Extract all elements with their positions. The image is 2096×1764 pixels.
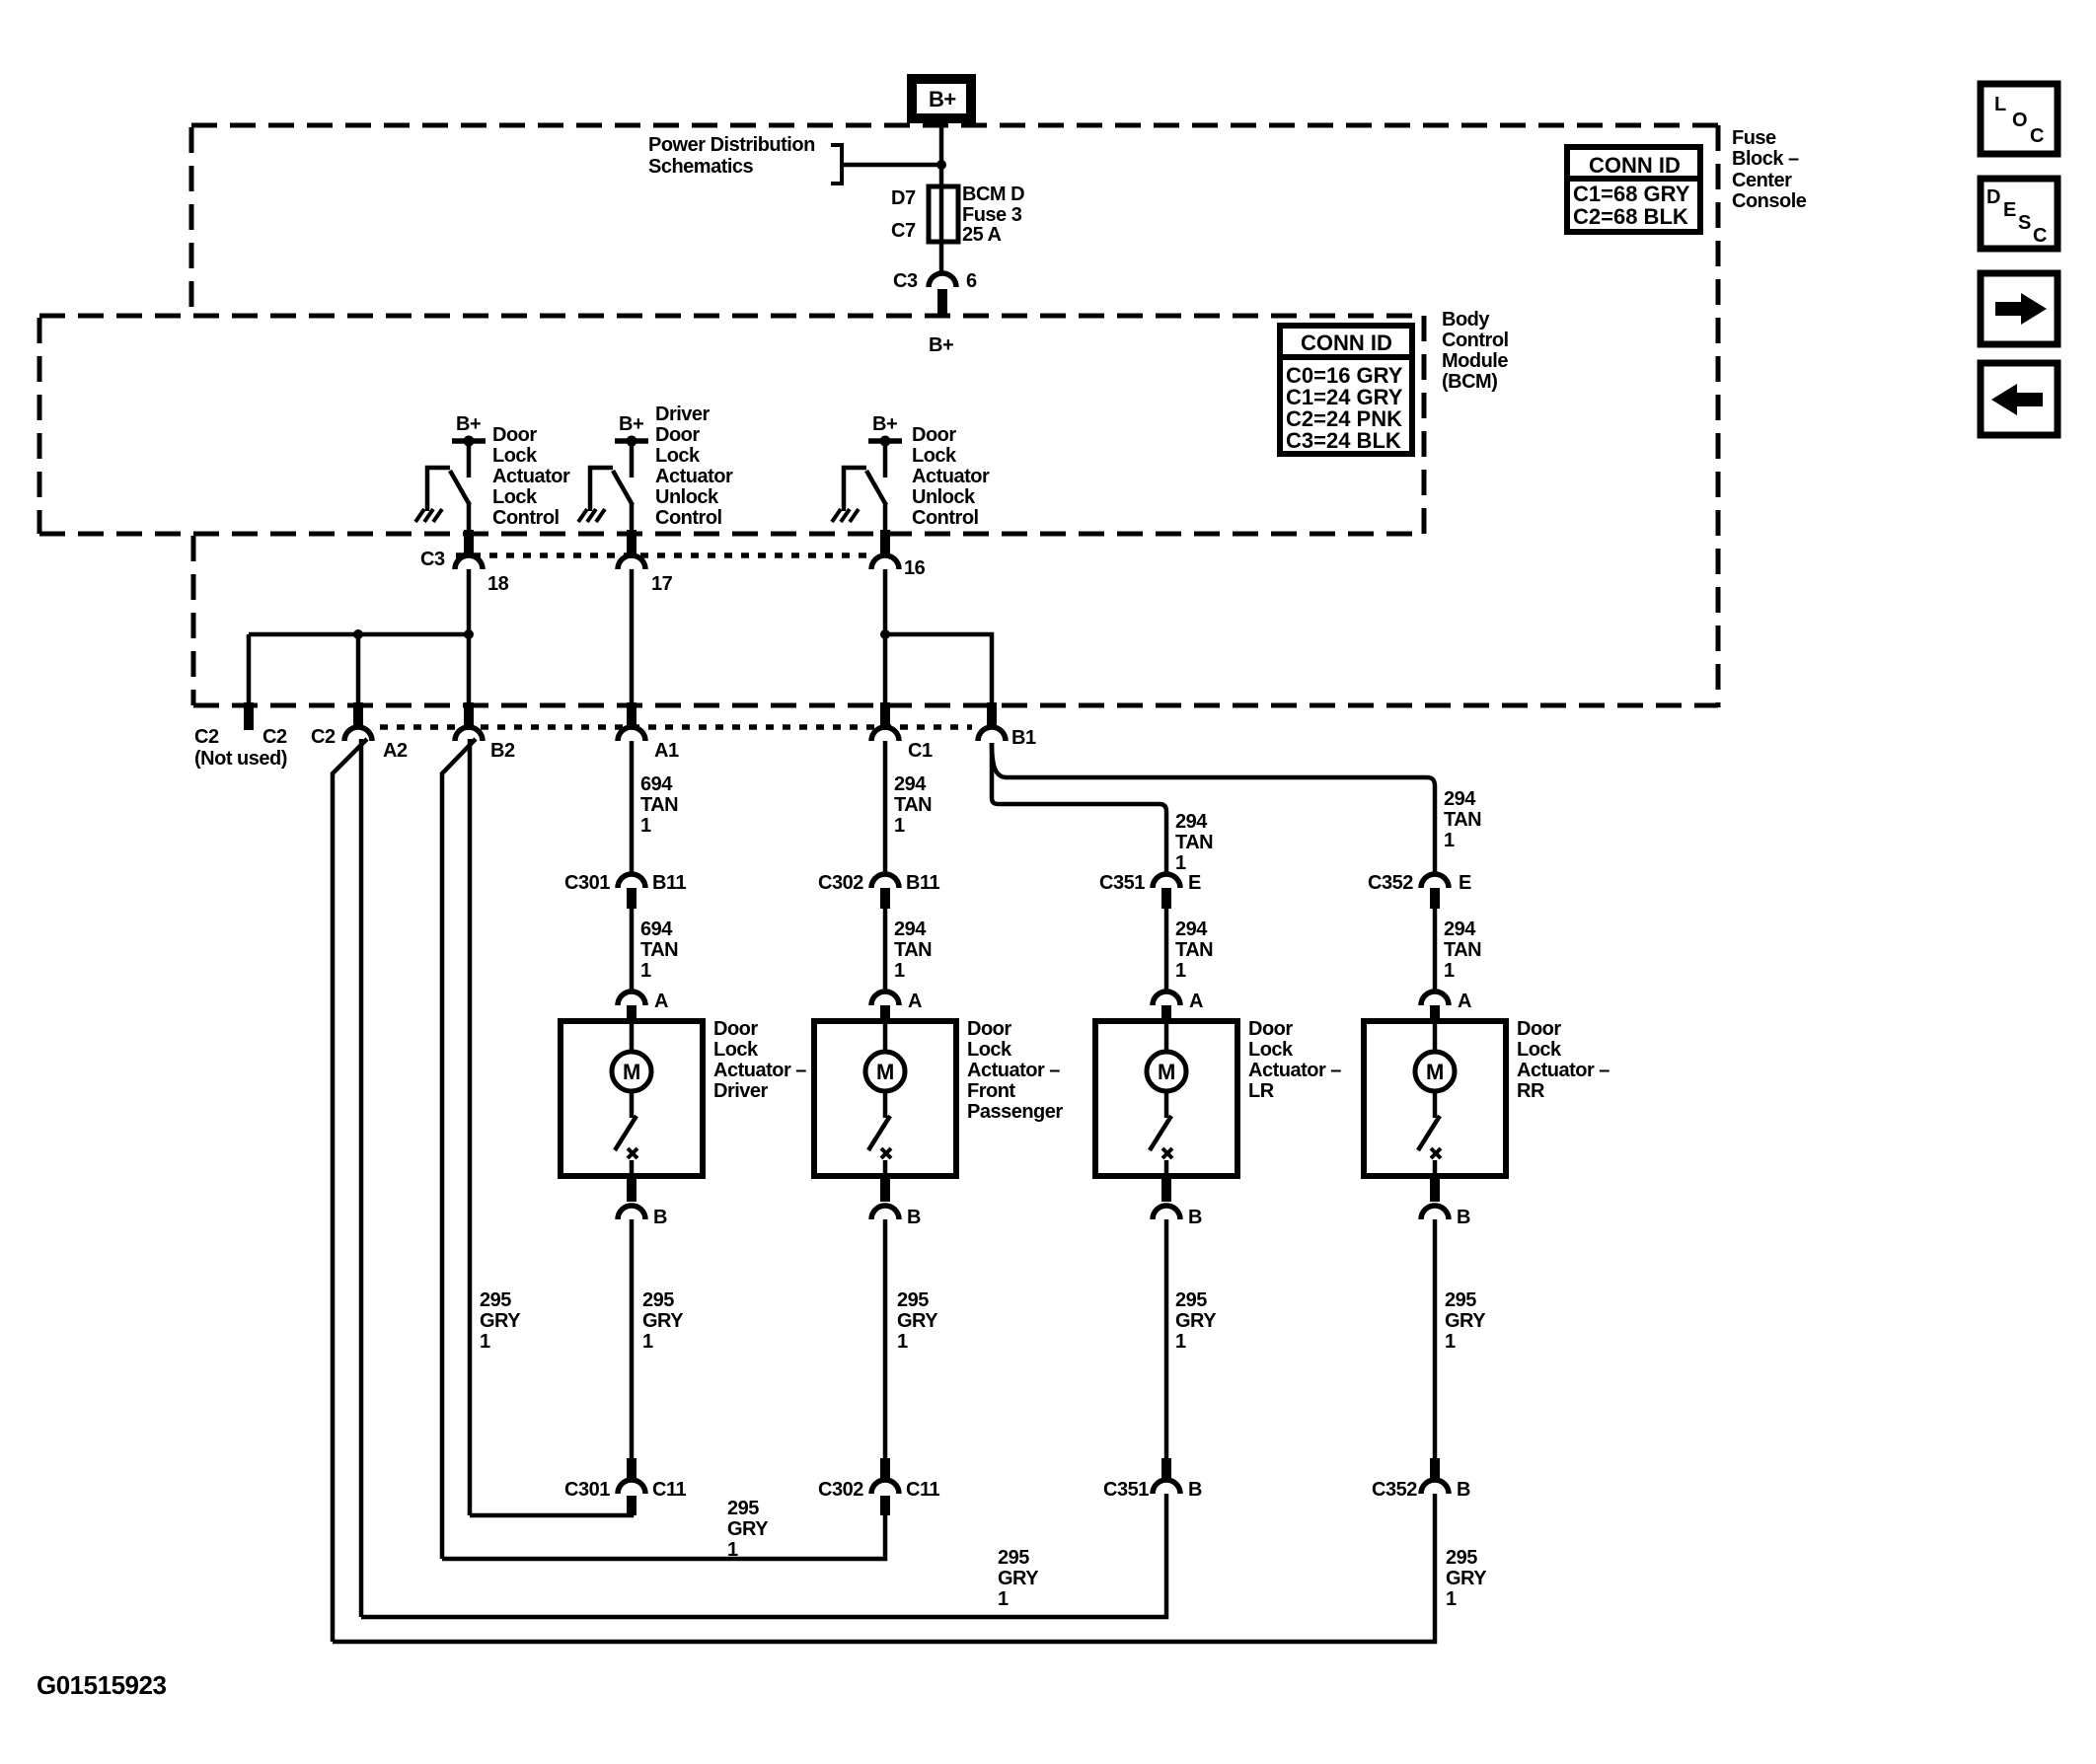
svg-text:Schematics: Schematics: [648, 156, 754, 178]
svg-text:A: A: [1189, 991, 1203, 1012]
svg-text:GRY: GRY: [1175, 1310, 1217, 1332]
svg-text:295: 295: [1175, 1289, 1207, 1311]
svg-text:Block –: Block –: [1732, 148, 1799, 170]
svg-text:S: S: [2018, 212, 2031, 234]
svg-text:Actuator: Actuator: [655, 466, 733, 487]
svg-text:A: A: [1458, 991, 1471, 1012]
svg-text:Actuator –: Actuator –: [1248, 1060, 1341, 1081]
body control module dashed box right: [1422, 316, 1427, 534]
svg-text:A2: A2: [383, 740, 408, 762]
stub C302 C11 below: [880, 1496, 890, 1515]
svg-text:B11: B11: [652, 872, 686, 894]
wire B1 to C351 branch: [992, 743, 1166, 874]
svg-text:GRY: GRY: [1445, 1310, 1486, 1332]
svg-text:294: 294: [1444, 788, 1476, 810]
svg-text:C7: C7: [891, 220, 916, 242]
svg-text:B: B: [653, 1207, 667, 1228]
svg-text:B: B: [1188, 1207, 1202, 1228]
stub B1: [987, 702, 997, 727]
wire B passenger to C302 C11: [883, 1219, 888, 1460]
wire B driver to C301 C11: [630, 1219, 635, 1460]
svg-text:16: 16: [904, 557, 926, 579]
node B+ battery feed box: [912, 79, 971, 118]
svg-text:(Not used): (Not used): [194, 748, 287, 770]
svg-text:1: 1: [640, 960, 651, 982]
body control module dashed box left: [37, 318, 42, 534]
svg-text:1: 1: [1444, 830, 1455, 851]
wire C352 B return to A2 left: [333, 1494, 1435, 1642]
node junction dot lock bus at pin18: [464, 629, 474, 639]
conn id table bcm: [1280, 326, 1412, 454]
wire C302 C11 return to B2 left: [442, 1513, 885, 1559]
connector C2 arc pin B2: [455, 727, 483, 741]
connector C2 arc pin A1: [618, 727, 645, 741]
svg-text:Unlock: Unlock: [655, 486, 719, 508]
switch S1 door lock actuator lock control: [415, 413, 570, 534]
svg-text:C301: C301: [564, 872, 610, 894]
svg-text:TAN: TAN: [1444, 809, 1481, 831]
svg-text:294: 294: [1444, 919, 1476, 940]
svg-text:Lock: Lock: [492, 486, 538, 508]
switch S3 door lock actuator unlock control: [832, 413, 990, 534]
stub C1: [880, 702, 890, 727]
connector C302 arc pin C11: [880, 1458, 890, 1482]
switch S2 driver door lock actuator unlock control: [578, 404, 733, 534]
wire pin18 to B2 drop: [467, 634, 472, 704]
svg-text:294: 294: [1175, 919, 1208, 940]
body control module dashed box top: [39, 314, 1424, 319]
switch blade S2: [613, 471, 633, 505]
svg-text:294: 294: [894, 773, 927, 795]
connector C301 arc pin B11: [618, 874, 645, 888]
svg-text:295: 295: [1446, 1547, 1477, 1569]
svg-text:25 A: 25 A: [962, 224, 1002, 246]
wire pin17 down to A1: [630, 569, 635, 704]
svg-text:1: 1: [998, 1588, 1009, 1610]
svg-text:B: B: [1457, 1207, 1470, 1228]
svg-text:Module: Module: [1442, 350, 1508, 372]
wire switch output S1: [467, 504, 472, 534]
connector C301 arc pin C11: [627, 1458, 636, 1482]
wire B+ feed S3: [883, 441, 888, 478]
wire A2 crossover left branch: [333, 739, 367, 1642]
svg-text:18: 18: [487, 573, 509, 595]
connector C2 arc pin A2: [344, 727, 372, 741]
svg-text:B+: B+: [929, 334, 953, 356]
wire A1 to C301: [630, 741, 635, 874]
connector arc pin A driver: [618, 992, 645, 1005]
svg-text:1: 1: [1446, 1588, 1457, 1610]
svg-text:M: M: [1426, 1060, 1444, 1084]
svg-text:L: L: [1994, 94, 2006, 115]
svg-text:Control: Control: [912, 507, 979, 529]
svg-text:295: 295: [998, 1547, 1029, 1569]
svg-text:TAN: TAN: [1175, 939, 1213, 961]
svg-text:C352: C352: [1368, 872, 1413, 894]
svg-text:E: E: [1188, 872, 1201, 894]
wire C351 to A LR: [1164, 909, 1169, 992]
wire C301 C11 return to B2: [470, 1507, 632, 1515]
ground contact arm S3: [844, 468, 866, 511]
svg-text:295: 295: [897, 1289, 929, 1311]
svg-text:TAN: TAN: [894, 939, 932, 961]
fuse block center console dashed box top: [191, 123, 1718, 128]
stub B2: [464, 702, 474, 727]
connector C3 pin 18 arc: [455, 555, 483, 569]
svg-text:C2=68 BLK: C2=68 BLK: [1573, 204, 1688, 229]
svg-text:D: D: [1986, 186, 2000, 208]
svg-text:LR: LR: [1248, 1080, 1275, 1102]
svg-text:Actuator: Actuator: [912, 466, 990, 487]
icon LOC button: [1981, 84, 2058, 154]
connector C3 pin 17 arc: [618, 555, 645, 569]
wire C2 not used drop: [247, 634, 252, 704]
svg-text:TAN: TAN: [1444, 939, 1481, 961]
svg-text:E: E: [1459, 872, 1471, 894]
conn id table fuse block: [1567, 147, 1700, 232]
svg-text:1: 1: [1175, 852, 1186, 874]
svg-text:1: 1: [480, 1331, 490, 1353]
wire B2 crossover right branch: [468, 739, 473, 1515]
svg-text:6: 6: [966, 270, 977, 292]
svg-text:C1=68 GRY: C1=68 GRY: [1573, 182, 1690, 206]
svg-text:Lock: Lock: [1517, 1039, 1562, 1061]
connector C3 pin 18 stub: [464, 530, 474, 555]
svg-text:Door: Door: [967, 1018, 1011, 1040]
wire power distribution tap: [842, 163, 941, 168]
wire B LR to C351 B: [1164, 1219, 1169, 1460]
svg-text:C1: C1: [908, 740, 933, 762]
svg-text:Center: Center: [1732, 170, 1792, 191]
svg-text:Body: Body: [1442, 309, 1490, 331]
svg-text:Door: Door: [492, 424, 537, 446]
svg-text:1: 1: [642, 1331, 653, 1353]
svg-text:294: 294: [894, 919, 927, 940]
svg-text:Lock: Lock: [655, 445, 701, 467]
svg-text:Actuator –: Actuator –: [967, 1060, 1060, 1081]
connector C352 arc pin E: [1421, 874, 1449, 888]
svg-text:C2: C2: [262, 726, 287, 748]
wire B2 crossover left branch: [442, 739, 476, 1559]
svg-text:C351: C351: [1103, 1479, 1149, 1501]
svg-text:1: 1: [894, 960, 905, 982]
wire stub C3-6 through BCM boundary: [937, 289, 947, 314]
svg-text:Driver: Driver: [713, 1080, 769, 1102]
svg-text:G01515923: G01515923: [37, 1670, 166, 1700]
connector C352 arc pin B: [1430, 1458, 1440, 1482]
svg-text:B2: B2: [490, 740, 515, 762]
svg-text:1: 1: [1445, 1331, 1456, 1353]
svg-text:Door: Door: [713, 1018, 758, 1040]
svg-text:Console: Console: [1732, 190, 1807, 212]
ground contact arm S2: [590, 468, 613, 511]
svg-text:B: B: [907, 1207, 921, 1228]
svg-text:1: 1: [897, 1331, 908, 1353]
svg-text:Control: Control: [1442, 330, 1509, 351]
wire C301 to A driver: [630, 909, 635, 992]
node junction dot at power tap: [936, 160, 946, 170]
svg-text:295: 295: [727, 1498, 759, 1519]
ground symbol S2: [578, 509, 605, 522]
icon back arrow button: [1981, 363, 2058, 435]
svg-text:GRY: GRY: [998, 1568, 1039, 1589]
fuse block dashed box left upper: [189, 127, 194, 314]
svg-text:Fuse: Fuse: [1732, 127, 1776, 149]
svg-text:Actuator: Actuator: [492, 466, 570, 487]
connector arc pin A passenger: [871, 992, 899, 1005]
svg-text:B+: B+: [619, 413, 643, 435]
svg-text:C: C: [2033, 225, 2047, 247]
svg-text:Door: Door: [655, 424, 700, 446]
svg-text:M: M: [876, 1060, 894, 1084]
svg-text:Lock: Lock: [1248, 1039, 1294, 1061]
svg-text:1: 1: [1444, 960, 1455, 982]
svg-text:C11: C11: [906, 1479, 939, 1501]
svg-text:C11: C11: [652, 1479, 686, 1501]
svg-text:1: 1: [1175, 960, 1186, 982]
svg-text:BCM D: BCM D: [962, 184, 1024, 205]
svg-text:Driver: Driver: [655, 404, 711, 425]
wire switch output S2: [630, 504, 635, 534]
svg-text:294: 294: [1175, 811, 1208, 833]
callout bracket Power Distribution Schematics: [831, 145, 842, 184]
svg-text:B+: B+: [872, 413, 897, 435]
svg-text:CONN ID: CONN ID: [1301, 331, 1392, 355]
svg-text:Lock: Lock: [967, 1039, 1012, 1061]
svg-text:Door: Door: [912, 424, 956, 446]
svg-text:C: C: [2030, 125, 2044, 147]
fuse block dashed box left lower: [191, 536, 196, 705]
svg-text:M: M: [623, 1060, 640, 1084]
svg-text:C352: C352: [1372, 1479, 1417, 1501]
svg-text:A1: A1: [654, 740, 679, 762]
wire B+ box to junction: [939, 123, 944, 186]
wire through fuse: [939, 186, 944, 273]
wire C2 A2 drop: [356, 634, 361, 704]
wire B+ feed S1: [467, 441, 472, 478]
connector arc pin A RR: [1421, 992, 1449, 1005]
svg-text:C2: C2: [194, 726, 219, 748]
body control module dashed box bottom: [39, 532, 1424, 537]
connector C3 pin 17 stub: [627, 530, 636, 555]
wire pin16 down to C1: [883, 569, 888, 704]
wire B1 to C352 branch: [992, 743, 1435, 874]
svg-text:Front: Front: [967, 1080, 1015, 1102]
svg-text:295: 295: [642, 1289, 674, 1311]
svg-text:B: B: [1188, 1479, 1202, 1501]
node junction dot lock bus at A2 tap: [353, 629, 363, 639]
wire switch output S3: [883, 504, 888, 534]
stub C2 A2: [353, 702, 363, 727]
connector C3 pin 16 arc: [871, 555, 899, 569]
svg-text:1: 1: [640, 815, 651, 837]
fuse BCM D Fuse 3 25A: [929, 186, 958, 242]
svg-text:C301: C301: [564, 1479, 610, 1501]
svg-text:694: 694: [640, 773, 673, 795]
svg-text:A: A: [654, 991, 668, 1012]
svg-text:GRY: GRY: [642, 1310, 684, 1332]
connector C2 arc pin C1: [871, 727, 899, 741]
svg-text:B: B: [1457, 1479, 1470, 1501]
svg-text:Power Distribution: Power Distribution: [648, 134, 815, 156]
svg-text:295: 295: [1445, 1289, 1476, 1311]
connector C351 arc pin B: [1161, 1458, 1171, 1482]
wire A2 crossover right branch: [359, 739, 364, 1617]
svg-text:C351: C351: [1099, 872, 1145, 894]
svg-text:1: 1: [1175, 1331, 1186, 1353]
wire B RR to C352 B: [1433, 1219, 1438, 1460]
svg-text:TAN: TAN: [640, 794, 678, 816]
ground symbol S3: [832, 509, 859, 522]
wire C302 to A passenger: [883, 909, 888, 992]
svg-text:C3: C3: [420, 549, 445, 570]
svg-text:17: 17: [651, 573, 673, 595]
svg-text:E: E: [2003, 199, 2016, 221]
svg-text:Door: Door: [1248, 1018, 1293, 1040]
icon DESC button: [1981, 179, 2058, 249]
svg-text:Lock: Lock: [713, 1039, 759, 1061]
node junction dot unlock bus: [880, 629, 890, 639]
connector arc pin B driver: [627, 1178, 636, 1202]
motor M3 door lock actuator LR: [1095, 1021, 1237, 1176]
svg-text:GRY: GRY: [727, 1518, 769, 1540]
wire pin18 down to junction: [467, 569, 472, 634]
svg-text:M: M: [1158, 1060, 1175, 1084]
svg-text:TAN: TAN: [640, 939, 678, 961]
svg-text:1: 1: [894, 815, 905, 837]
svg-text:A: A: [908, 991, 922, 1012]
svg-text:TAN: TAN: [894, 794, 932, 816]
fuse block dashed box right: [1716, 125, 1721, 707]
motor M4 door lock actuator RR: [1364, 1021, 1506, 1176]
connector C302 arc pin B11: [871, 874, 899, 888]
svg-text:Lock: Lock: [492, 445, 538, 467]
svg-text:GRY: GRY: [897, 1310, 938, 1332]
switch blade S1: [450, 471, 470, 505]
svg-text:Unlock: Unlock: [912, 486, 976, 508]
svg-text:C302: C302: [818, 872, 863, 894]
svg-text:GRY: GRY: [1446, 1568, 1487, 1589]
svg-text:GRY: GRY: [480, 1310, 521, 1332]
wire C351 B return to A2: [361, 1494, 1166, 1617]
svg-text:C3=24 BLK: C3=24 BLK: [1286, 428, 1401, 453]
svg-text:295: 295: [480, 1289, 511, 1311]
svg-text:TAN: TAN: [1175, 832, 1213, 853]
stub A1: [627, 702, 636, 727]
switch blade S3: [866, 471, 886, 505]
wire C1 to C302: [883, 741, 888, 874]
svg-text:Passenger: Passenger: [967, 1101, 1063, 1123]
connector C3 pin 6 arc: [929, 273, 956, 287]
svg-text:B+: B+: [929, 87, 956, 111]
wire C352 to A RR: [1433, 909, 1438, 992]
connector arc pin B passenger: [880, 1178, 890, 1202]
svg-text:C3: C3: [893, 270, 918, 292]
svg-text:Control: Control: [655, 507, 722, 529]
svg-text:Lock: Lock: [912, 445, 957, 467]
svg-text:B+: B+: [456, 413, 481, 435]
fuse block dashed box bottom: [193, 703, 1718, 708]
svg-text:CONN ID: CONN ID: [1589, 153, 1681, 178]
connector C3 pin 16 stub: [880, 530, 890, 555]
svg-text:Actuator –: Actuator –: [713, 1060, 806, 1081]
motor M1 door lock actuator driver: [561, 1021, 703, 1176]
stub C301 C11 below: [627, 1496, 636, 1515]
connector row C3 dotted line: [456, 552, 870, 558]
svg-text:1: 1: [727, 1539, 738, 1561]
ground symbol S1: [415, 509, 442, 522]
ground contact arm S1: [427, 468, 450, 511]
svg-text:Fuse 3: Fuse 3: [962, 204, 1022, 226]
connector row2 dotted line: [380, 724, 972, 730]
connector arc pin B LR: [1161, 1178, 1171, 1202]
svg-text:Actuator –: Actuator –: [1517, 1060, 1609, 1081]
svg-text:C302: C302: [818, 1479, 863, 1501]
connector arc pin B RR: [1430, 1178, 1440, 1202]
svg-text:(BCM): (BCM): [1442, 371, 1497, 393]
connector C2 arc pin B1: [978, 727, 1006, 741]
svg-text:O: O: [2012, 110, 2027, 131]
connector C351 arc pin E: [1153, 874, 1180, 888]
svg-text:B1: B1: [1011, 727, 1036, 749]
svg-text:Control: Control: [492, 507, 560, 529]
svg-text:B11: B11: [906, 872, 939, 894]
wire B+ feed S2: [630, 441, 635, 478]
wire lock control horizontal bus: [249, 632, 469, 637]
svg-text:D7: D7: [891, 187, 916, 209]
svg-text:RR: RR: [1517, 1080, 1545, 1102]
svg-text:694: 694: [640, 919, 673, 940]
motor M2 door lock actuator front passenger: [814, 1021, 956, 1176]
connector arc pin A LR: [1153, 992, 1180, 1005]
stub C2 not used tip: [244, 702, 254, 730]
icon next arrow button: [1981, 273, 2058, 344]
svg-text:C2: C2: [311, 726, 336, 748]
wire unlock bus to B1: [885, 634, 992, 704]
svg-text:Door: Door: [1517, 1018, 1561, 1040]
